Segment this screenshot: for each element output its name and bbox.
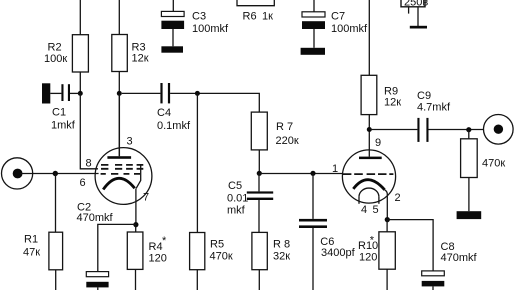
wire junction to C8 (387, 220, 433, 271)
svg-text:7: 7 (143, 192, 149, 204)
svg-text:R10: R10 (358, 240, 378, 252)
resistor R3 12k (112, 35, 149, 72)
resistor R1 47k (23, 232, 63, 270)
pin 6 label (80, 177, 86, 189)
pentode V1 grid g3 row (101, 164, 143, 166)
svg-text:3400pf: 3400pf (321, 247, 356, 259)
svg-text:5: 5 (373, 204, 379, 216)
svg-text:R 8: R 8 (273, 239, 290, 251)
svg-text:C7: C7 (331, 11, 345, 23)
wire R4 to bottom edge (135, 269, 137, 290)
wire B+ rail drop to R2 (79, 0, 81, 35)
svg-text:2: 2 (395, 192, 401, 204)
pin 2 label (395, 192, 401, 204)
svg-text:100mkf: 100mkf (331, 23, 368, 35)
pin 4 label (361, 204, 367, 216)
resistor R11 470k load (461, 130, 506, 178)
pentode V1 grid g2 row (pin 8) (101, 168, 143, 170)
svg-text:R1: R1 (24, 234, 38, 246)
svg-text:470к: 470к (210, 251, 233, 263)
svg-text:32к: 32к (273, 251, 290, 263)
svg-text:250в: 250в (404, 0, 428, 9)
svg-text:C9: C9 (417, 90, 431, 102)
node junction cathode/R10/C8 (385, 217, 390, 222)
svg-text:1к: 1к (262, 11, 273, 23)
svg-text:470mkf: 470mkf (441, 252, 478, 264)
node junction R2/C1 (78, 91, 83, 96)
wire R1 to bottom edge (55, 270, 57, 290)
capacitor C1 1mkf (42, 83, 79, 131)
svg-text:*: * (162, 235, 167, 247)
wire junction down to tube pin 8 (80, 93, 98, 168)
wire supply box to terminal (417, 7, 419, 26)
svg-text:120: 120 (149, 253, 167, 265)
svg-text:C4: C4 (157, 107, 171, 119)
svg-text:47к: 47к (23, 247, 40, 259)
ground bar below C7 (301, 48, 325, 55)
resistor R9 12k (361, 75, 401, 114)
capacitor C8 470mkf (422, 241, 478, 290)
resistor R4 120 (127, 225, 167, 270)
wire C4 to R7 top (170, 93, 259, 112)
svg-text:1: 1 (332, 163, 338, 175)
resistor R2 100k (44, 35, 88, 72)
wire cathode lead pin 2 (385, 190, 388, 220)
wire junction to C2 (98, 224, 136, 271)
svg-text:R4: R4 (149, 241, 163, 253)
svg-text:120: 120 (359, 252, 377, 264)
svg-text:470mkf: 470mkf (77, 212, 114, 224)
svg-text:12к: 12к (384, 97, 401, 109)
wire heater lead pin 5 (378, 197, 380, 204)
wire cathode lead pin 7 (135, 189, 137, 225)
pin 5 label (373, 204, 379, 216)
node junction C6 tap (310, 171, 315, 176)
svg-text:*: * (370, 235, 375, 247)
wire stub below supply box (408, 8, 410, 14)
resistor R7 220k (251, 112, 299, 150)
node junction input/R1 (53, 171, 58, 176)
wire junction down to R1 (55, 174, 57, 233)
wire heater lead pin 4 (358, 197, 360, 204)
node junction C4/R5 (195, 91, 200, 96)
triode V2 cathode arc (353, 180, 384, 190)
pentode V1 anode bar (107, 156, 131, 159)
wire input jack to grid pin 6 (20, 173, 99, 175)
svg-text:R5: R5 (210, 239, 224, 251)
wire B+ rail drop to R9 (368, 0, 370, 75)
svg-text:3: 3 (127, 136, 133, 148)
node junction cathode/C2/R4 (133, 222, 138, 227)
capacitor C5 0.01mkf (227, 173, 273, 232)
resistor R10 120 (358, 220, 395, 270)
wire g3 tie to cathode (136, 165, 141, 188)
triode V2 anode bar (359, 157, 382, 160)
svg-text:8: 8 (86, 158, 92, 170)
resistor R5 470k (190, 233, 233, 270)
wire B+ rail drop to R3 (118, 0, 120, 35)
svg-text:1mkf: 1mkf (51, 120, 76, 132)
svg-text:100к: 100к (44, 53, 67, 65)
svg-text:mkf: mkf (227, 205, 246, 217)
ground bar below 470k (457, 211, 482, 219)
pin 9 label (375, 137, 381, 149)
input jack X1 (2, 158, 33, 189)
capacitor C7 100mkf (302, 0, 368, 48)
ground bar below C3 (161, 46, 183, 52)
node junction C9/470k (466, 127, 471, 132)
wire R3 bottom to anode of V1 (118, 72, 120, 157)
wire R2 bottom to C1 junction (79, 72, 81, 93)
output jack X2 (484, 115, 514, 145)
svg-text:4.7mkf: 4.7mkf (417, 102, 451, 114)
svg-text:100mkf: 100mkf (192, 23, 229, 35)
triode V2 envelope (342, 150, 395, 203)
svg-text:220к: 220к (276, 135, 299, 147)
svg-text:4: 4 (361, 204, 367, 216)
ground terminal bar below supply box (410, 26, 427, 29)
wire R5 to bottom edge (196, 270, 198, 290)
svg-text:C5: C5 (228, 180, 242, 192)
svg-text:6: 6 (80, 177, 86, 189)
capacitor C3 100mkf (161, 0, 229, 46)
svg-text:12к: 12к (132, 53, 149, 65)
pentode V1 cathode arc (103, 178, 135, 189)
capacitor C4 0.1mkf (122, 83, 191, 132)
capacitor C2 470mkf (77, 202, 114, 290)
svg-text:0.01: 0.01 (227, 193, 248, 205)
svg-text:9: 9 (375, 137, 381, 149)
pentode V1 grid g1 row (pin 6) (101, 173, 140, 175)
wire R10 to bottom edge (386, 269, 388, 290)
wire coupling node to grid pin 1 of V2 (259, 173, 343, 175)
node +250V supply box (401, 0, 428, 9)
pin 3 label (127, 136, 133, 148)
svg-text:R2: R2 (48, 42, 62, 54)
node junction R7/C5 (257, 171, 262, 176)
pentode V1 envelope (95, 148, 152, 205)
wire anode lead pin 3 (118, 94, 120, 156)
heater filament arc (359, 188, 379, 197)
node junction R3/C4 (117, 91, 122, 96)
svg-text:R 7: R 7 (276, 121, 293, 133)
capacitor C6 3400pf (299, 173, 356, 290)
wire R8 to bottom edge (258, 270, 260, 290)
pin 8 label (86, 158, 92, 170)
wire R7 bottom to grid wire (258, 150, 260, 173)
svg-text:C3: C3 (192, 11, 206, 23)
triode V2 grid row (pin 1) (343, 173, 394, 175)
wire R9 bottom to anode of V2 (368, 115, 370, 157)
svg-text:470к: 470к (482, 158, 505, 170)
resistor R8 32k (252, 232, 290, 269)
wire 470k to ground (468, 178, 470, 212)
wire junction down to R5 (196, 93, 198, 232)
svg-text:R6: R6 (243, 11, 257, 23)
resistor R6 1k (cut by top edge) (237, 0, 274, 23)
pin 1 label (332, 163, 338, 175)
pin 7 label (143, 192, 149, 204)
capacitor C9 4.7mkf (369, 90, 483, 142)
svg-text:C1: C1 (52, 107, 66, 119)
svg-text:0.1mkf: 0.1mkf (157, 120, 191, 132)
node junction R9/C9 (367, 127, 372, 132)
